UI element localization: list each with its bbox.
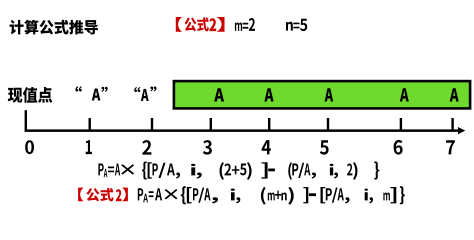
axis number 6 bbox=[394, 140, 403, 155]
axis number 7 bbox=[446, 140, 455, 154]
label 【公式2】 (red, header) bbox=[176, 17, 225, 32]
tick 6 bbox=[400, 118, 402, 131]
formula 2: PA=A×{[P/A, i, (m+n)]-[P/A, i, m]} bbox=[138, 186, 405, 204]
tick 2 bbox=[151, 118, 153, 131]
axis number 5 bbox=[320, 140, 329, 154]
tick 0 bbox=[25, 110, 27, 130]
quoted annuity “ A” bbox=[75, 86, 107, 100]
tick 1 bbox=[89, 118, 91, 131]
tick 3 bbox=[210, 118, 212, 131]
green highlight box bbox=[174, 81, 470, 108]
A payment 2 in green box bbox=[264, 88, 273, 101]
axis arrowhead bbox=[458, 127, 465, 134]
label n=5 bbox=[286, 19, 307, 31]
axis number 2 bbox=[142, 140, 151, 155]
axis number 1 bbox=[86, 140, 92, 154]
tick 5 bbox=[327, 118, 329, 131]
axis number 0 bbox=[25, 140, 34, 154]
label 现值点 bbox=[8, 87, 53, 103]
label m=2 bbox=[235, 18, 255, 31]
A payment 1 in green box bbox=[214, 88, 224, 101]
label 【公式2】 (red, formula 2) bbox=[78, 188, 128, 202]
tick 7 bbox=[451, 118, 453, 131]
axis line bbox=[25, 129, 460, 132]
quoted annuity “A” bbox=[134, 87, 156, 102]
A payment 5 in green box bbox=[450, 88, 459, 101]
axis number 4 bbox=[262, 140, 271, 154]
axis number 3 bbox=[203, 140, 212, 155]
formula 1: PA=A×{[P/A, i, (2+5)]-(P/A, i, 2)} bbox=[98, 162, 379, 180]
A payment 3 in green box bbox=[325, 88, 334, 101]
title text 计算公式推导 bbox=[10, 20, 98, 35]
tick 4 bbox=[268, 118, 270, 131]
A payment 4 in green box bbox=[400, 88, 409, 101]
